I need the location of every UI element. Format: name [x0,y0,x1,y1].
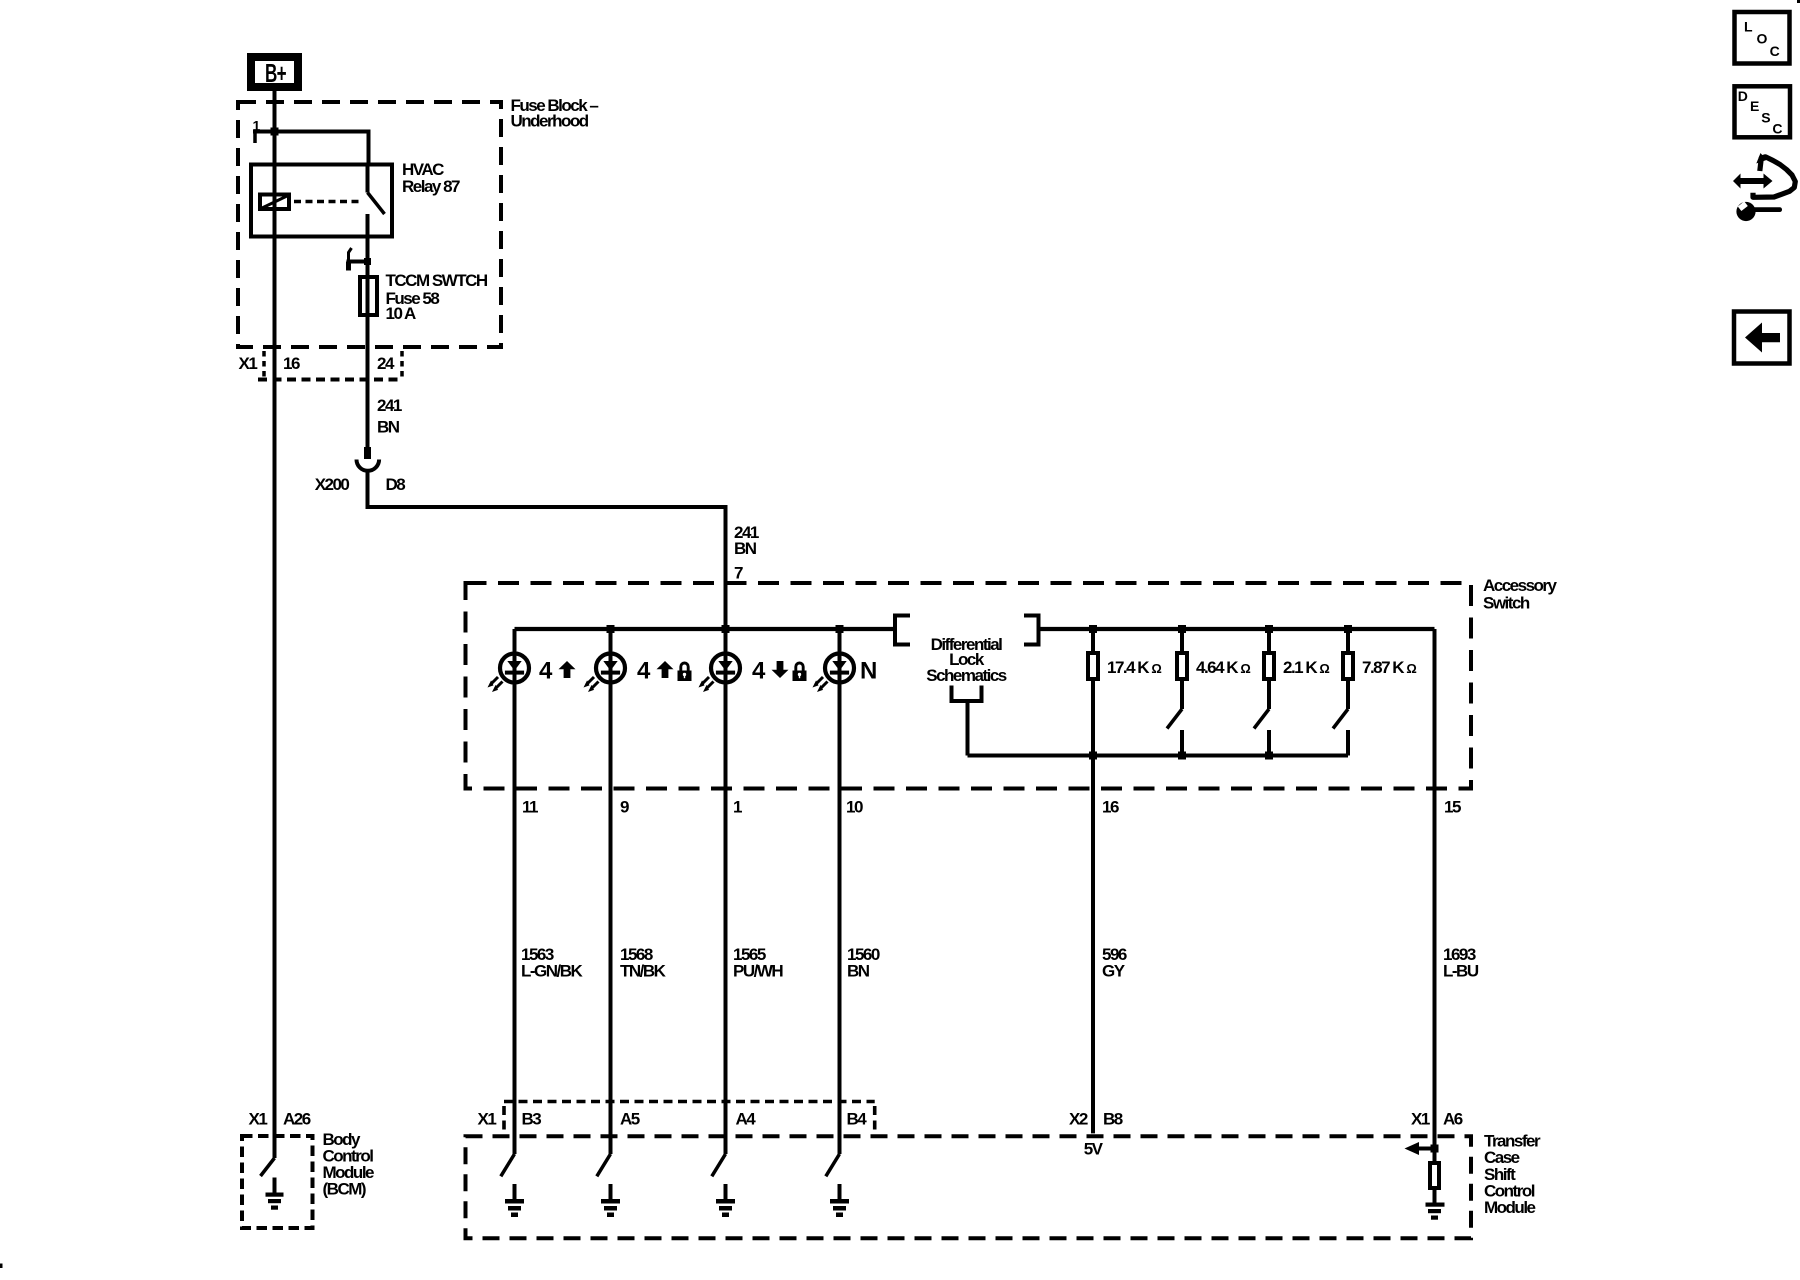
svg-text:Accessory: Accessory [1483,576,1558,595]
svg-text:PU/WH: PU/WH [733,961,783,980]
bus wire LEDs [515,627,895,631]
switch in accessory box [1254,709,1269,729]
bottom rail of switch commons [968,754,1349,758]
wire LED column x=839.5 [838,629,842,1154]
switch in transfer case module [501,1154,515,1176]
resistor in transfer case module [1430,1163,1439,1188]
svg-text:TN/BK: TN/BK [620,961,667,980]
svg-text:A4: A4 [736,1110,757,1129]
junction on resistor bus [1265,625,1273,633]
junction on resistor bus [1178,625,1186,633]
junction on bottom rail [1089,752,1097,760]
inline connector X200 pin D8 [364,447,371,459]
relay HVAC Relay 87 box [251,165,392,237]
switch in transfer case module [597,1154,611,1176]
icon back arrow box [1734,312,1790,364]
wire 1594 left rail from B+ to BCM [273,90,277,1158]
relay coil-contact dashed link [294,200,362,204]
svg-text:L: L [1744,19,1753,35]
fuse holder clip at TCCM fuse [349,248,352,260]
resistor 17.4 K ohm [1091,629,1095,651]
svg-text:4: 4 [637,657,651,684]
bus wire resistors [1039,627,1435,631]
svg-text:S: S [1761,109,1770,125]
ground in transfer case module [838,1184,842,1199]
svg-text:L-BU: L-BU [1443,961,1479,980]
svg-text:Schematics: Schematics [926,666,1007,685]
svg-text:Switch: Switch [1483,594,1530,613]
svg-text:A6: A6 [1443,1110,1463,1129]
svg-text:15: 15 [1444,798,1461,817]
svg-text:BN: BN [847,961,870,980]
svg-text:B+: B+ [265,58,287,88]
ground in transfer case module at A6 [1426,1203,1445,1207]
wire from junction to relay switch [253,132,369,163]
junction on LED bus [607,625,615,633]
svg-text:241: 241 [377,396,402,415]
svg-text:Underhood: Underhood [511,112,589,131]
svg-text:A5: A5 [620,1110,640,1129]
wire LED column x=725.5 [724,629,728,1154]
svg-text:A26: A26 [283,1110,311,1129]
fuse block - underhood dashed box [238,102,501,347]
junction on bottom rail [1178,752,1186,760]
junction on bottom rail [1265,752,1273,760]
svg-text:D8: D8 [386,475,406,494]
switch in accessory box [1333,709,1348,729]
LED indicator 4LO lock [711,654,740,683]
switch in BCM [261,1158,275,1176]
svg-text:10 A: 10 A [386,304,417,323]
icon wrench with arrows [1733,174,1773,189]
svg-text:B4: B4 [847,1110,868,1129]
LED indicator 4HI lock [596,654,625,683]
resistor 4.64 K ohm [1180,629,1184,651]
wire 1693 L-BU right rail [1433,629,1437,1161]
svg-text:9: 9 [620,798,629,817]
transfer case module dashed box [466,1136,1472,1238]
fuse TCCM SWTCH Fuse 58 10A [360,277,377,315]
svg-text:Module: Module [1484,1198,1536,1217]
LED indicator 4HI [500,654,529,683]
svg-text:L-GN/BK: L-GN/BK [521,961,584,980]
svg-text:10: 10 [846,798,863,817]
wire from schematics bracket down [966,701,970,756]
LED indicator N [825,654,854,683]
junction on LED bus [722,625,730,633]
relay contact switch [366,163,370,193]
svg-text:(BCM): (BCM) [323,1180,366,1199]
corner artifact bottom left [0,1264,3,1269]
relay coil [260,195,289,210]
power symbol B+ box [251,57,298,87]
accessory switch dashed box [466,583,1472,789]
svg-text:TCCM SWTCH: TCCM SWTCH [386,271,488,290]
svg-text:5V: 5V [1084,1139,1104,1158]
svg-text:X1: X1 [239,354,258,373]
svg-text:N: N [860,657,877,684]
wire LED column x=610.5 [609,629,613,1154]
svg-text:X2: X2 [1069,1110,1088,1129]
switch in transfer case module [826,1154,840,1176]
svg-text:GY: GY [1102,961,1126,980]
BCM dashed box [242,1136,313,1228]
svg-text:B8: B8 [1103,1110,1123,1129]
bracket to Differential Lock Schematics left [895,616,910,645]
svg-text:24: 24 [377,354,395,373]
signal arrow at A6 [1431,1145,1439,1153]
icon LOC box [1735,12,1790,64]
svg-text:BN: BN [377,418,400,437]
svg-text:E: E [1750,98,1759,114]
corner artifact top right [1797,0,1800,3]
bracket to Differential Lock Schematics right [1024,616,1039,645]
ground in transfer case module [513,1184,517,1199]
svg-text:D: D [1738,88,1748,104]
svg-text:11: 11 [522,798,538,817]
junction on LED bus [836,625,844,633]
wire relay output through fuse to X200 [366,262,370,448]
svg-text:16: 16 [1102,798,1119,817]
svg-text:X1: X1 [249,1110,268,1129]
svg-text:C: C [1772,121,1782,137]
junction on resistor bus [1344,625,1352,633]
svg-text:4: 4 [752,657,766,684]
icon DESC box [1735,86,1791,137]
svg-text:1: 1 [733,798,742,817]
wire 241 BN from X200 to accessory switch [368,471,726,630]
svg-text:7.87 K Ω: 7.87 K Ω [1362,658,1416,677]
svg-text:X1: X1 [1411,1110,1430,1129]
svg-text:X1: X1 [478,1110,497,1129]
svg-text:17.4 K Ω: 17.4 K Ω [1107,658,1161,677]
connector X1 strip of transfer case module [504,1100,875,1104]
resistor 7.87 K ohm [1346,629,1350,651]
wire 596 GY from 17.4K to 5V [1091,681,1095,1133]
svg-text:16: 16 [283,354,300,373]
ground in BCM [273,1178,277,1193]
svg-text:BN: BN [734,539,757,558]
junction at B+ rail [271,128,279,136]
svg-text:Relay 87: Relay 87 [402,177,460,196]
wire LED column x=514.5 [513,629,517,1154]
svg-text:B3: B3 [522,1110,542,1129]
switch in transfer case module [712,1154,726,1176]
switch in accessory box [1167,709,1182,729]
junction on resistor bus [1089,625,1097,633]
svg-text:2.1 K Ω: 2.1 K Ω [1283,658,1329,677]
svg-text:X200: X200 [315,475,350,494]
svg-text:C: C [1770,43,1780,59]
svg-text:4.64 K Ω: 4.64 K Ω [1196,658,1250,677]
svg-text:4: 4 [539,657,553,684]
svg-text:O: O [1757,31,1768,47]
ground in transfer case module [609,1184,613,1199]
ground in transfer case module [724,1184,728,1199]
resistor 2.1 K ohm [1267,629,1271,651]
svg-text:7: 7 [734,564,743,583]
bracket below Differential Lock Schematics [952,686,982,702]
